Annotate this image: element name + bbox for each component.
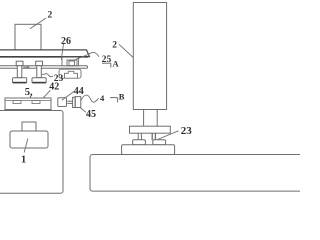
- svg-text:42: 42: [49, 81, 59, 92]
- svg-text:5,: 5,: [25, 87, 33, 98]
- svg-text:2: 2: [112, 40, 117, 50]
- svg-text:45: 45: [86, 109, 96, 120]
- svg-text:1: 1: [21, 154, 26, 165]
- svg-text:25: 25: [102, 55, 112, 65]
- svg-text:A: A: [113, 58, 120, 68]
- svg-text:2: 2: [48, 11, 53, 21]
- svg-text:23: 23: [181, 125, 193, 137]
- svg-text:26: 26: [61, 36, 71, 47]
- svg-text:4: 4: [100, 93, 105, 103]
- svg-text:B: B: [119, 92, 125, 102]
- svg-text:44: 44: [74, 86, 84, 97]
